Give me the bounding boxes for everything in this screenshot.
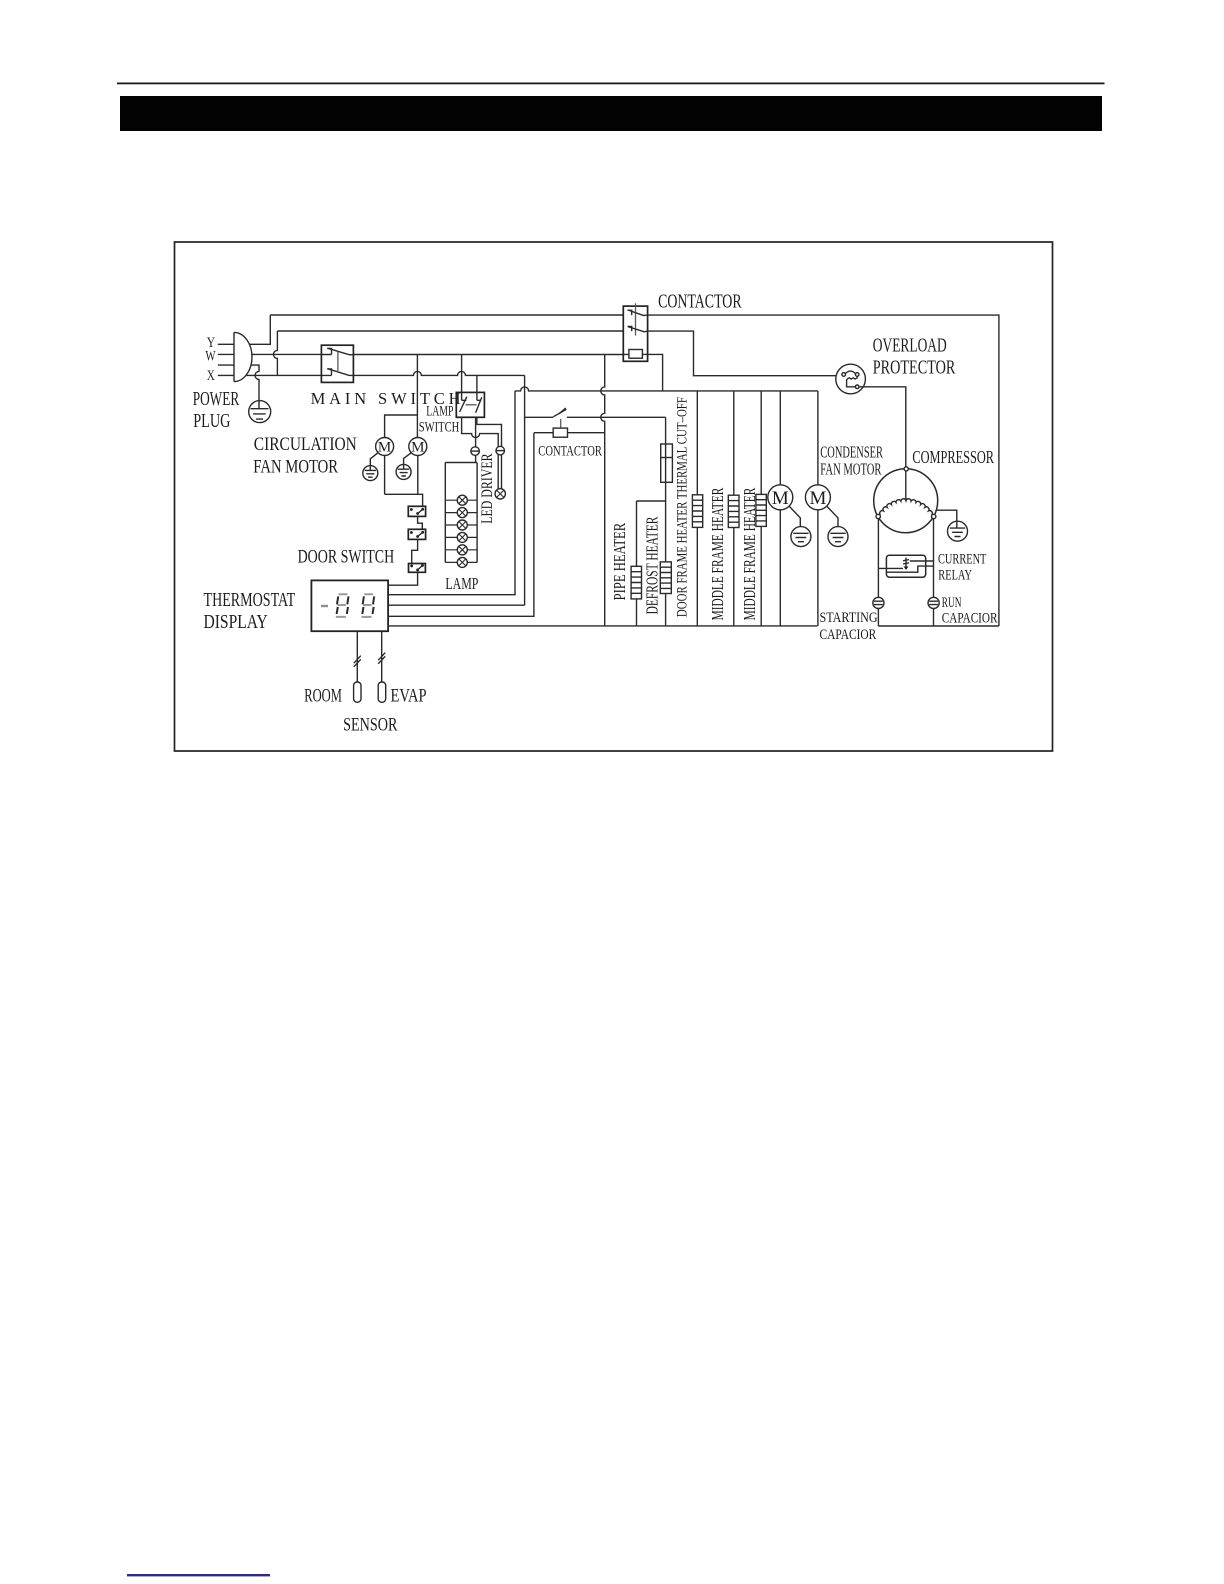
svg-text:DEFROST HEATER: DEFROST HEATER — [643, 516, 662, 614]
svg-text:CONTACTOR: CONTACTOR — [538, 443, 602, 459]
svg-text:CONTACTOR: CONTACTOR — [658, 291, 742, 313]
svg-text:CIRCULATION: CIRCULATION — [254, 435, 357, 455]
svg-text:M: M — [411, 440, 424, 456]
svg-text:X: X — [207, 368, 215, 384]
svg-text:OVERLOAD: OVERLOAD — [873, 335, 947, 357]
svg-text:PIPE HEATER: PIPE HEATER — [610, 522, 629, 600]
svg-text:CAPACIOR: CAPACIOR — [820, 627, 877, 643]
svg-text:M: M — [378, 440, 391, 456]
svg-text:M: M — [772, 488, 789, 509]
svg-text:PLUG: PLUG — [193, 410, 230, 432]
svg-text:CONDENSER: CONDENSER — [820, 442, 883, 461]
svg-text:THERMOSTAT: THERMOSTAT — [204, 589, 296, 611]
svg-text:FAN MOTOR: FAN MOTOR — [820, 460, 882, 479]
svg-text:SENSOR: SENSOR — [343, 715, 398, 736]
svg-text:STARTING: STARTING — [820, 610, 879, 626]
svg-text:PROTECTOR: PROTECTOR — [873, 356, 956, 378]
svg-text:LED DRIVER: LED DRIVER — [479, 453, 496, 524]
svg-text:COMPRESSOR: COMPRESSOR — [912, 447, 994, 467]
svg-text:RELAY: RELAY — [938, 567, 972, 583]
svg-text:FAN MOTOR: FAN MOTOR — [253, 457, 338, 477]
svg-text:DOOR SWITCH: DOOR SWITCH — [298, 547, 395, 568]
svg-text:EVAP: EVAP — [391, 686, 427, 707]
svg-text:DISPLAY: DISPLAY — [204, 611, 268, 633]
svg-text:MIDDLE FRAME HEATER: MIDDLE FRAME HEATER — [708, 487, 727, 620]
svg-text:MIDDLE FRAME HEATER: MIDDLE FRAME HEATER — [740, 487, 759, 620]
svg-text:CURRENT: CURRENT — [938, 551, 986, 567]
svg-text:W: W — [205, 348, 216, 364]
svg-text:SWITCH: SWITCH — [419, 419, 460, 435]
svg-text:ROOM: ROOM — [304, 686, 342, 707]
svg-text:M: M — [809, 488, 826, 509]
svg-text:LAMP: LAMP — [426, 404, 453, 420]
svg-text:RUN: RUN — [942, 595, 962, 611]
svg-text:DOOR FRAME HEATER THERMAL CUT–: DOOR FRAME HEATER THERMAL CUT–OFF — [675, 397, 691, 617]
svg-text:LAMP: LAMP — [445, 574, 478, 593]
svg-text:POWER: POWER — [193, 388, 240, 410]
svg-text:CAPACIOR: CAPACIOR — [942, 611, 998, 627]
